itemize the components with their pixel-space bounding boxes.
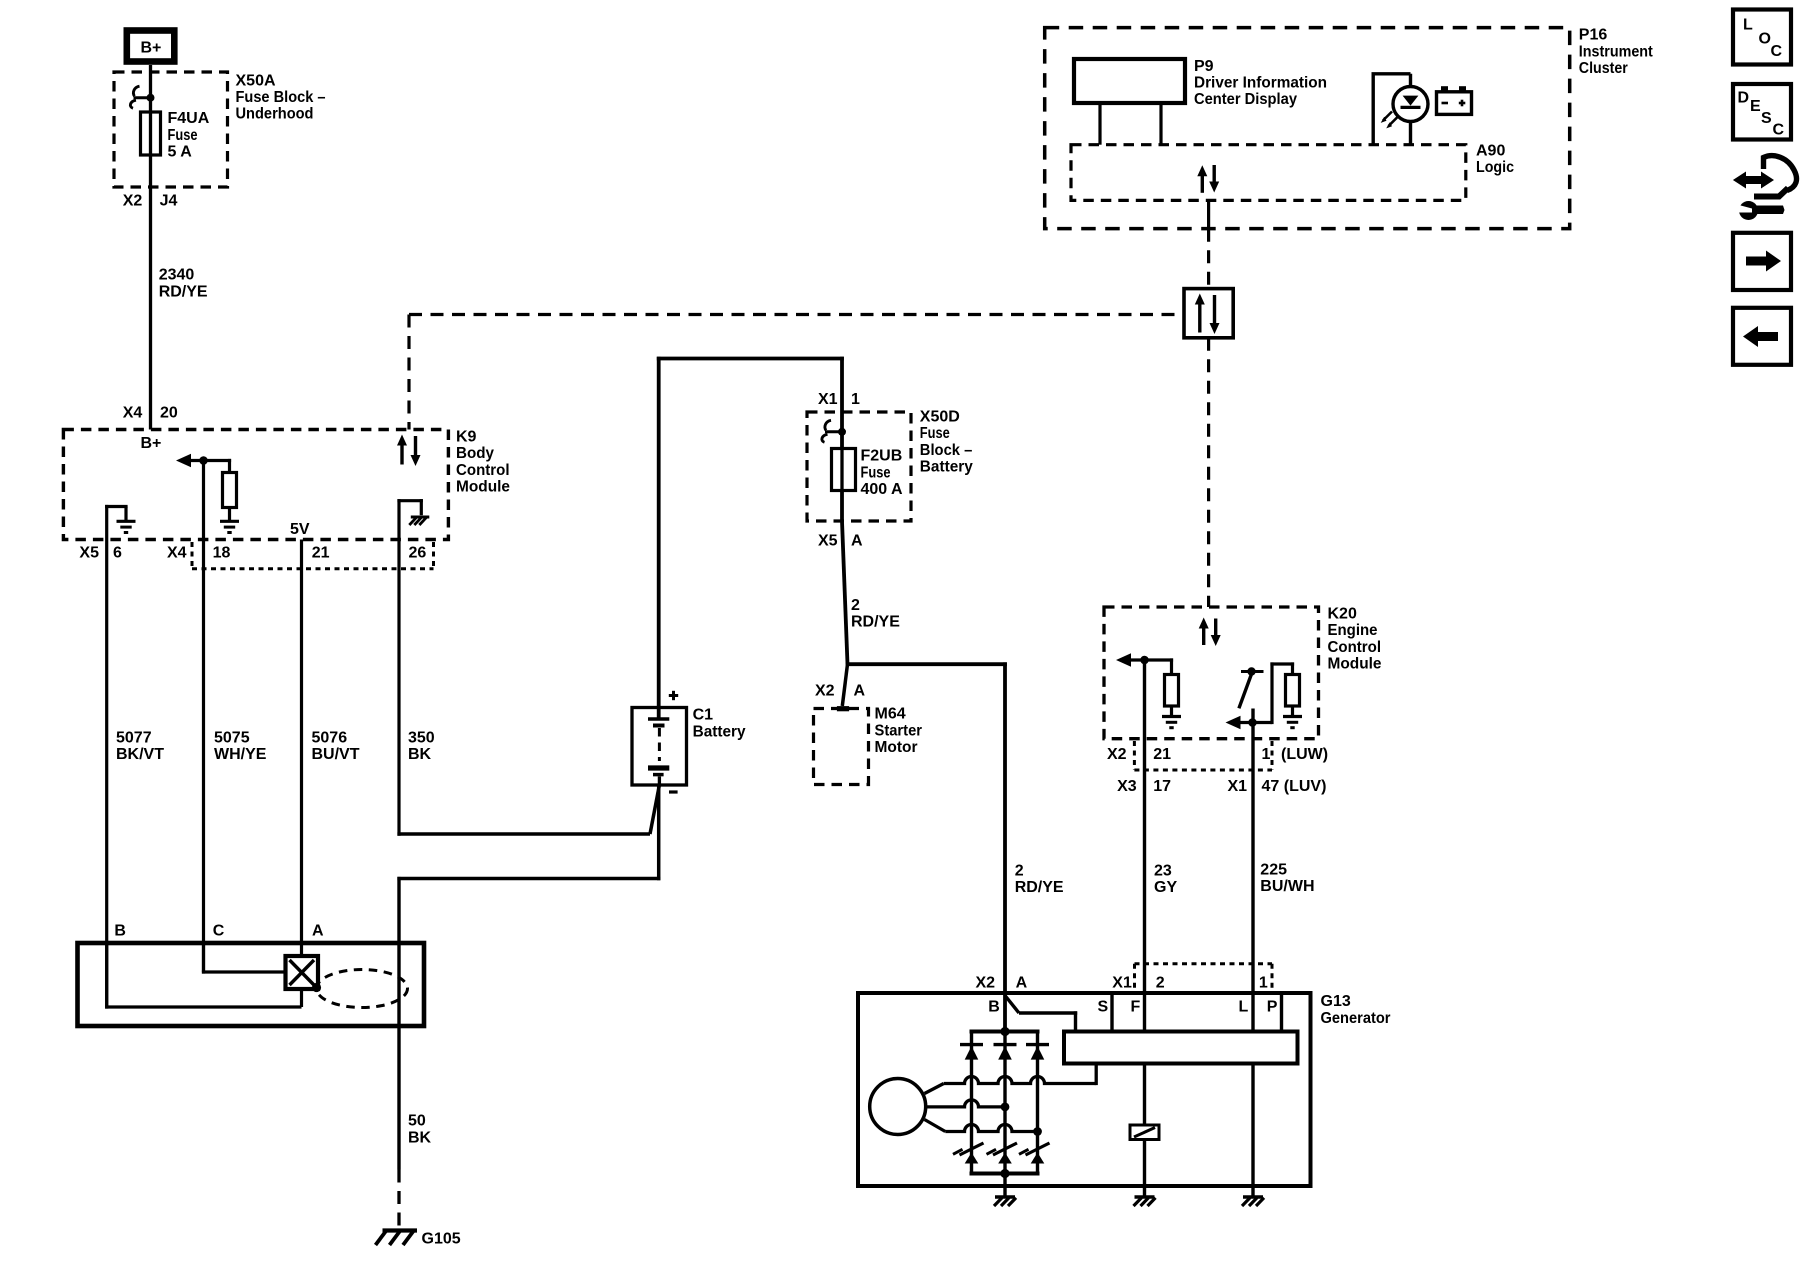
svg-text:Fuse: Fuse bbox=[168, 127, 198, 144]
wire 50 BK dashed tail to G105 bbox=[397, 1170, 400, 1230]
indicator LED telltale circle bbox=[1393, 87, 1428, 122]
LED cathode bar bbox=[1401, 106, 1421, 109]
wire battery negative to 350 BK junction bbox=[650, 785, 659, 834]
ground BCM internal (resistor) bbox=[220, 520, 239, 523]
stator winding phase 3 bbox=[925, 1120, 946, 1132]
wire BCM internal node bbox=[189, 459, 231, 462]
wire indicator lamp bbox=[1409, 74, 1412, 145]
junction dot pin 18 node bbox=[199, 456, 208, 465]
svg-text:B+: B+ bbox=[141, 40, 162, 57]
wire serial data cluster internal bbox=[1207, 200, 1210, 228]
svg-text:Starter: Starter bbox=[875, 722, 923, 739]
svg-text:Module: Module bbox=[1328, 656, 1382, 673]
wire BCM pin 26 internal to chassis ground bbox=[397, 499, 400, 539]
svg-text:D: D bbox=[1738, 90, 1750, 107]
connector dashed outline generator X1 bbox=[1133, 964, 1136, 991]
svg-text:F4UA: F4UA bbox=[168, 110, 210, 127]
svg-text:RD/YE: RD/YE bbox=[159, 283, 208, 300]
svg-text:F2UB: F2UB bbox=[861, 448, 903, 465]
svg-text:X2: X2 bbox=[123, 193, 143, 210]
fuse block feed tap symbol X50D bbox=[825, 430, 842, 433]
splice group dashed ellipse bbox=[317, 970, 408, 1008]
wire 2 RD/YE from X50D to starter junction bbox=[842, 521, 848, 664]
junction dot bridge bottom bbox=[1000, 1169, 1009, 1178]
LED triangle bbox=[1403, 96, 1419, 106]
wire 23 GY from ECM X3-17 to generator F bbox=[1143, 660, 1146, 1032]
svg-text:5075: 5075 bbox=[214, 729, 250, 746]
svg-text:Fuse: Fuse bbox=[920, 425, 950, 442]
svg-text:C: C bbox=[213, 923, 225, 940]
stator winding phase 1 bbox=[925, 1084, 944, 1094]
display P9 Driver Information Center Display bbox=[1074, 59, 1185, 103]
node B+ battery positive terminal bbox=[127, 31, 175, 62]
svg-text:Body: Body bbox=[456, 445, 494, 462]
svg-text:C1: C1 bbox=[693, 707, 714, 724]
svg-text:A: A bbox=[854, 683, 866, 700]
svg-text:Logic: Logic bbox=[1476, 159, 1514, 176]
svg-text:A90: A90 bbox=[1476, 142, 1505, 159]
svg-text:1: 1 bbox=[1262, 746, 1271, 763]
svg-text:50: 50 bbox=[408, 1113, 426, 1130]
junction dot ECM pin 21 node bbox=[1140, 656, 1149, 665]
svg-text:A: A bbox=[1016, 975, 1028, 992]
svg-text:Battery: Battery bbox=[920, 459, 973, 476]
svg-text:Driver Information: Driver Information bbox=[1194, 75, 1327, 92]
svg-text:J4: J4 bbox=[160, 193, 178, 210]
indicator lamp bracket bbox=[1373, 74, 1410, 145]
wire junction to starter motor M64 bbox=[842, 664, 847, 706]
svg-text:X3: X3 bbox=[1117, 778, 1137, 795]
svg-text:2: 2 bbox=[1156, 975, 1165, 992]
svg-text:1: 1 bbox=[851, 391, 860, 408]
diode lower phase 2 bbox=[998, 1153, 1012, 1164]
data link arrow box bbox=[1184, 289, 1233, 338]
svg-text:BU/WH: BU/WH bbox=[1260, 878, 1314, 895]
stator winding phase 2 bbox=[926, 1100, 1005, 1107]
wire B+ feed down through fuse F4UA to BCM pin X4-20 bbox=[149, 65, 152, 430]
splice pack ground distribution box bbox=[78, 943, 425, 1026]
svg-text:X1: X1 bbox=[818, 391, 838, 408]
wire splice internal from C bbox=[202, 943, 205, 974]
svg-text:18: 18 bbox=[213, 545, 231, 562]
svg-text:Control: Control bbox=[456, 462, 510, 479]
svg-text:47 (LUV): 47 (LUV) bbox=[1262, 778, 1327, 795]
svg-text:X4: X4 bbox=[167, 545, 187, 562]
splice X crimp symbol bbox=[286, 956, 319, 989]
BCM internal left-pointing arrow bbox=[176, 454, 191, 468]
diode bridge top bar bbox=[970, 1030, 1040, 1034]
svg-text:Instrument: Instrument bbox=[1579, 43, 1654, 60]
svg-text:A: A bbox=[851, 533, 863, 550]
terminal bar starter motor stud bbox=[837, 706, 849, 711]
fuse block X50D dashed box bbox=[807, 412, 911, 521]
wire generator B internal tap to regulator bbox=[1005, 996, 1019, 1014]
resistor BCM pull-up bbox=[228, 459, 231, 473]
ECM internal left arrow (field monitor) bbox=[1116, 653, 1131, 667]
generator G13 box bbox=[858, 993, 1311, 1186]
ground BCM internal (pin 6) bbox=[117, 520, 136, 523]
chassis ground generator L bbox=[1243, 1195, 1263, 1198]
fuse block X50A dashed box bbox=[114, 72, 228, 187]
ground ECM internal left bbox=[1162, 715, 1181, 718]
svg-text:A: A bbox=[312, 923, 324, 940]
wire splice internal from B bbox=[105, 943, 108, 1009]
wire 5075 WH/YE from BCM X4-18 to splice pack pin C bbox=[202, 461, 205, 973]
wire 350 BK from BCM X4-26 to battery negative bbox=[397, 540, 400, 836]
wire generator F internal bbox=[1143, 1064, 1146, 1126]
LED light emission arrows bbox=[1389, 117, 1398, 126]
wire display legs bbox=[1098, 103, 1101, 145]
svg-text:Fuse: Fuse bbox=[861, 464, 891, 481]
fuse F2UB 400 A bbox=[832, 449, 856, 491]
svg-text:Fuse Block –: Fuse Block – bbox=[236, 89, 326, 106]
icon DESC box bbox=[1733, 84, 1791, 140]
diode bridge bottom bar bbox=[970, 1172, 1040, 1176]
svg-text:Module: Module bbox=[456, 479, 510, 496]
svg-text:Center Display: Center Display bbox=[1194, 91, 1297, 108]
svg-text:5 A: 5 A bbox=[168, 144, 193, 161]
chassis ground G105 bbox=[383, 1228, 418, 1232]
svg-text:(LUW): (LUW) bbox=[1281, 746, 1328, 763]
svg-text:WH/YE: WH/YE bbox=[214, 746, 267, 763]
wire ECM internal node pin 47 bbox=[1239, 721, 1273, 724]
connector X4 dashed outline bbox=[191, 542, 194, 569]
svg-text:O: O bbox=[1759, 31, 1771, 48]
svg-text:BK: BK bbox=[408, 1129, 432, 1146]
svg-text:17: 17 bbox=[1153, 778, 1171, 795]
svg-text:C: C bbox=[1773, 122, 1785, 139]
svg-text:20: 20 bbox=[160, 405, 178, 422]
svg-text:X4: X4 bbox=[123, 405, 143, 422]
svg-text:2: 2 bbox=[1015, 862, 1024, 879]
svg-text:21: 21 bbox=[1153, 746, 1171, 763]
svg-text:1: 1 bbox=[1259, 975, 1268, 992]
A90 serial data arrows bbox=[1201, 176, 1204, 193]
svg-text:Block –: Block – bbox=[920, 442, 973, 459]
battery telltale icon bbox=[1437, 92, 1472, 115]
svg-text:6: 6 bbox=[113, 545, 122, 562]
wire battery negative to ground G105 run bbox=[657, 785, 661, 880]
svg-text:P9: P9 bbox=[1194, 58, 1214, 75]
diode bridge verticals bbox=[970, 1032, 973, 1174]
starter motor M64 dashed box bbox=[814, 709, 869, 785]
label - battery negative bbox=[669, 790, 678, 793]
fuse F4UA bbox=[141, 112, 161, 155]
wire generator S internal bbox=[1110, 993, 1113, 1032]
svg-text:S: S bbox=[1761, 110, 1772, 127]
svg-text:X50D: X50D bbox=[920, 408, 960, 425]
svg-text:225: 225 bbox=[1260, 861, 1287, 878]
svg-text:23: 23 bbox=[1154, 862, 1172, 879]
icon back arrow box bbox=[1733, 308, 1791, 365]
wire serial data dashed cluster to data link box bbox=[1207, 229, 1210, 289]
svg-text:Battery: Battery bbox=[693, 723, 746, 740]
module K20 Engine Control Module dashed box bbox=[1104, 607, 1319, 739]
ground ECM internal right bbox=[1283, 715, 1302, 718]
resistor ECM internal right bbox=[1286, 675, 1300, 707]
diode upper phase 3 bbox=[1026, 1043, 1049, 1046]
label + battery positive bbox=[669, 694, 678, 697]
wire 50 BK down to splice pack bbox=[397, 877, 400, 1170]
wire 5077 BK/VT from BCM X5-6 to splice pack pin B bbox=[105, 540, 108, 1008]
svg-text:5076: 5076 bbox=[312, 729, 348, 746]
svg-text:L: L bbox=[1743, 17, 1753, 34]
wire 5076 BU/VT from BCM X4-21 to splice pack pin A bbox=[300, 540, 303, 957]
diode lower phase 1 bbox=[965, 1153, 979, 1164]
wire serial data dashed to ECM bbox=[1207, 338, 1210, 607]
svg-text:X5: X5 bbox=[818, 533, 838, 550]
diode upper phase 2 bbox=[994, 1043, 1017, 1046]
svg-text:RD/YE: RD/YE bbox=[1015, 879, 1064, 896]
svg-text:L: L bbox=[1239, 999, 1249, 1016]
svg-text:Generator: Generator bbox=[1321, 1010, 1391, 1027]
svg-text:Control: Control bbox=[1328, 639, 1382, 656]
switch ECM field control bbox=[1241, 670, 1264, 673]
svg-text:B: B bbox=[114, 923, 126, 940]
wire bridge to generator case ground bbox=[1003, 1174, 1006, 1198]
battery C1 bbox=[632, 708, 687, 786]
svg-text:X2: X2 bbox=[976, 975, 996, 992]
ECM serial data arrows bbox=[1202, 628, 1205, 645]
data link arrows bbox=[1198, 304, 1201, 333]
svg-text:2: 2 bbox=[851, 597, 860, 614]
icon schematic navigation (arrows and wrench) bbox=[1733, 172, 1774, 189]
rotor field coil circle bbox=[870, 1079, 926, 1135]
wire 225 BU/WH from ECM X1-47 to generator L bbox=[1251, 709, 1254, 1032]
ECM internal left arrow (field drive) bbox=[1226, 716, 1241, 730]
BCM serial data arrows bbox=[400, 445, 403, 465]
module A90 Logic dashed box bbox=[1071, 145, 1466, 201]
wire 2 RD/YE down to generator B terminal bbox=[1003, 662, 1007, 1031]
svg-text:X2: X2 bbox=[815, 683, 835, 700]
wire generator P internal bbox=[1280, 993, 1283, 1032]
svg-text:K9: K9 bbox=[456, 429, 477, 446]
wire ECM internal resistor branch bbox=[1270, 662, 1273, 724]
svg-text:5V: 5V bbox=[290, 521, 310, 538]
wire generator L internal bbox=[1251, 1064, 1254, 1198]
chassis ground BCM internal bbox=[411, 516, 430, 519]
module K9 Body Control Module dashed box bbox=[63, 430, 448, 540]
svg-text:Motor: Motor bbox=[875, 739, 918, 756]
svg-text:X5: X5 bbox=[79, 545, 99, 562]
svg-text:G105: G105 bbox=[422, 1230, 461, 1247]
svg-text:BK: BK bbox=[408, 746, 432, 763]
svg-text:2340: 2340 bbox=[159, 267, 195, 284]
wire ECM internal node pin 21 bbox=[1129, 658, 1173, 661]
svg-text:P16: P16 bbox=[1579, 27, 1608, 44]
diode lower phase 3 bbox=[1031, 1153, 1045, 1164]
svg-text:E: E bbox=[1750, 98, 1761, 115]
wire serial data dashed into BCM bbox=[407, 315, 410, 430]
wire battery positive cable to fuse block X50D bbox=[657, 357, 661, 718]
icon forward arrow box bbox=[1733, 233, 1791, 290]
svg-text:F: F bbox=[1131, 999, 1141, 1016]
svg-text:350: 350 bbox=[408, 729, 435, 746]
svg-text:X2: X2 bbox=[1107, 746, 1127, 763]
svg-text:M64: M64 bbox=[875, 706, 906, 723]
svg-text:X1: X1 bbox=[1112, 975, 1132, 992]
module P16 Instrument Cluster dashed box bbox=[1045, 28, 1570, 229]
svg-text:X50A: X50A bbox=[236, 72, 276, 89]
svg-text:RD/YE: RD/YE bbox=[851, 614, 900, 631]
resistor ECM internal bbox=[1170, 658, 1173, 674]
svg-text:B: B bbox=[988, 999, 1000, 1016]
field excitation element bbox=[1130, 1125, 1159, 1140]
wire BCM pin 6 internal to ground bbox=[105, 505, 108, 540]
wire 2 RD/YE horizontal run to generator bbox=[846, 662, 1007, 666]
svg-text:GY: GY bbox=[1154, 879, 1177, 896]
junction dot bridge top bbox=[1000, 1027, 1009, 1036]
svg-text:BK/VT: BK/VT bbox=[116, 746, 164, 763]
fuse block feed tap symbol bbox=[134, 96, 151, 99]
svg-text:K20: K20 bbox=[1328, 606, 1357, 623]
svg-text:S: S bbox=[1098, 999, 1109, 1016]
svg-text:X1: X1 bbox=[1228, 778, 1248, 795]
svg-text:Engine: Engine bbox=[1328, 622, 1378, 639]
svg-text:G13: G13 bbox=[1321, 993, 1351, 1010]
svg-text:400 A: 400 A bbox=[861, 481, 904, 498]
svg-text:26: 26 bbox=[409, 545, 427, 562]
svg-text:P: P bbox=[1267, 999, 1278, 1016]
icon LOC box bbox=[1733, 10, 1791, 65]
connector dashed outline ECM X2/X1 bbox=[1133, 741, 1136, 770]
junction dot splice node bbox=[312, 983, 321, 992]
svg-text:BU/VT: BU/VT bbox=[312, 746, 360, 763]
wire splice X to bus bbox=[300, 989, 303, 1007]
chassis ground generator B bbox=[995, 1195, 1015, 1198]
svg-text:C: C bbox=[1771, 43, 1783, 60]
voltage regulator block bbox=[1064, 1032, 1298, 1064]
chassis ground generator F bbox=[1135, 1195, 1155, 1198]
diode upper phase 1 bbox=[960, 1043, 983, 1046]
wire serial data dashed horizontal to instrument cluster bbox=[409, 313, 1184, 316]
svg-text:21: 21 bbox=[312, 545, 330, 562]
svg-text:B+: B+ bbox=[141, 435, 162, 452]
svg-text:Underhood: Underhood bbox=[236, 106, 314, 123]
svg-text:5077: 5077 bbox=[116, 729, 152, 746]
svg-text:Cluster: Cluster bbox=[1579, 60, 1628, 77]
junction dot ECM pin 47 node bbox=[1248, 718, 1257, 727]
